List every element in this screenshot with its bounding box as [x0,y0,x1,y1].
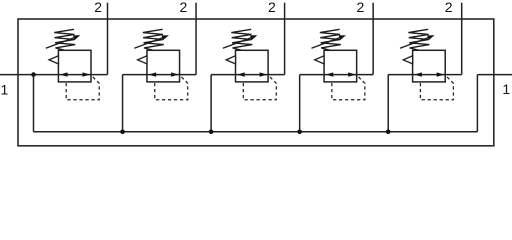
pressure regulator V2: valve body [147,50,180,82]
regulator V2: flow path line [147,74,180,76]
wire: feed riser from bus to regulator V4 [299,75,301,132]
regulator V5: pilot line (dashed) [420,76,453,100]
regulator V1: left flow arrowhead [60,72,68,76]
wire: output stub of regulator V3 [268,74,285,76]
regulator V3: right flow arrowhead [260,72,268,76]
wire: output riser to port 2 of regulator V5 [461,3,463,75]
wire: supply line port 1 (left) into manifold [0,74,58,76]
pressure regulator V4: valve body [324,50,357,82]
frame: manifold block outline [18,19,494,146]
regulator V4: pilot line (dashed) [332,76,365,100]
wire: branch down from supply junction [33,75,35,132]
regulator V3: adjustment spring [231,29,252,50]
svg-text:1: 1 [0,82,8,98]
wire: bus riser up to right exit [476,75,478,132]
regulator V2: adjustment spring [143,29,164,50]
regulator V2: adjustment arrow [134,38,163,49]
regulator V3: left flow arrowhead [237,72,245,76]
regulator V3: pilot line (dashed) [243,76,276,100]
svg-text:2: 2 [445,0,453,15]
regulator V4: flow path line [324,74,357,76]
regulator V4: left flow arrowhead [326,72,334,76]
regulator V3: flow path line [236,74,269,76]
wire: bottom distribution bus [34,131,478,133]
pressure regulator V1: valve body [58,50,91,82]
regulator V3: adjustment arrow [223,38,252,49]
regulator V1: relief vent triangle [49,56,58,64]
wire: output stub of regulator V2 [180,74,197,76]
node: bus junction for regulator V4 [297,130,302,135]
svg-text:2: 2 [268,0,276,15]
pressure regulator V3: valve body [236,50,269,82]
node: junction on supply line [31,72,36,77]
svg-text:2: 2 [356,0,364,15]
svg-text:2: 2 [94,0,102,15]
wire: feed riser from bus to regulator V5 [387,75,389,132]
regulator V4: adjustment arrow [311,38,340,49]
regulator V5: relief vent triangle [403,56,412,64]
pressure regulator V5: valve body [413,50,446,82]
regulator V5: adjustment spring [408,29,429,50]
regulator V1: flow path line [58,74,91,76]
wire: feed stub into regulator V3 [211,74,235,76]
wire: feed riser from bus to regulator V3 [210,75,212,132]
regulator V4: relief vent triangle [315,56,324,64]
node: bus junction for regulator V5 [386,130,391,135]
wire: feed stub into regulator V5 [388,74,412,76]
wire: output riser to port 2 of regulator V1 [107,3,109,75]
wire: output stub of regulator V5 [445,74,462,76]
regulator V4: adjustment spring [320,29,341,50]
regulator V5: left flow arrowhead [414,72,422,76]
wire: feed stub into regulator V4 [300,74,324,76]
regulator V1: adjustment spring [54,29,75,50]
node: bus junction for regulator V2 [120,130,125,135]
regulator V2: pilot line (dashed) [155,76,188,100]
regulator V5: right flow arrowhead [437,72,445,76]
wire: output riser to port 2 of regulator V4 [372,3,374,75]
wire: output riser to port 2 of regulator V3 [284,3,286,75]
wire: output stub of regulator V4 [357,74,374,76]
regulator V2: left flow arrowhead [149,72,157,76]
wire: output stub of regulator V1 [91,74,108,76]
regulator V2: right flow arrowhead [171,72,179,76]
regulator V1: pilot line (dashed) [66,76,99,100]
regulator V3: relief vent triangle [226,56,235,64]
wire: output riser to port 2 of regulator V2 [195,3,197,75]
regulator V2: relief vent triangle [138,56,147,64]
wire: feed riser from bus to regulator V2 [122,75,124,132]
regulator V1: right flow arrowhead [83,72,91,76]
svg-text:2: 2 [180,0,188,15]
regulator V5: adjustment arrow [400,38,429,49]
regulator V4: right flow arrowhead [348,72,356,76]
svg-text:1: 1 [502,81,510,97]
regulator V5: flow path line [413,74,446,76]
regulator V1: adjustment arrow [46,38,75,49]
node: bus junction for regulator V3 [209,130,214,135]
wire: feed stub into regulator V2 [123,74,147,76]
wire: supply line port 1 (right) out of manifold [477,74,512,76]
